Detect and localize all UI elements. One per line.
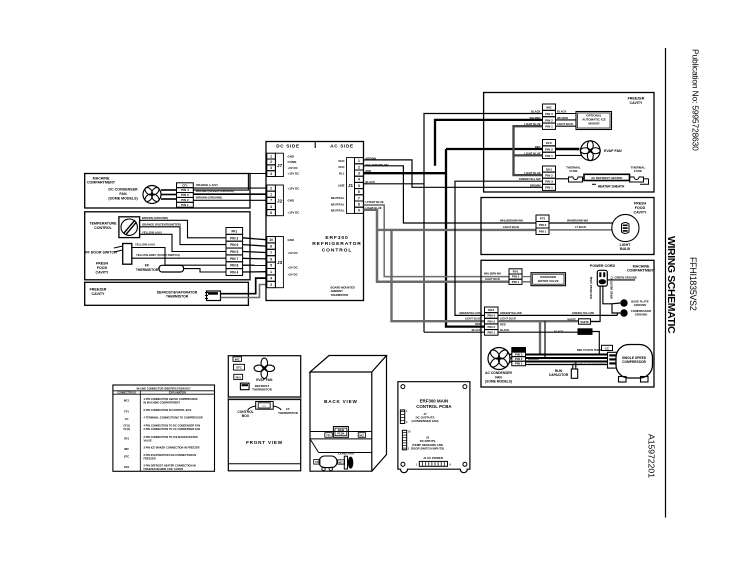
- svg-text:LIGHT BLUE: LIGHT BLUE: [503, 225, 519, 229]
- svg-text:2: 2: [270, 160, 272, 164]
- svg-text:1: 1: [270, 193, 272, 197]
- svg-text:BOX: BOX: [242, 414, 250, 418]
- svg-text:EXPLANATION: EXPLANATION: [169, 392, 186, 395]
- svg-text:LIGHT BLUE: LIGHT BLUE: [465, 317, 481, 321]
- svg-text:9: 9: [450, 463, 452, 466]
- svg-text:PIN 4: PIN 4: [181, 188, 189, 192]
- svg-text:POWER CORD: POWER CORD: [590, 264, 616, 268]
- svg-text:TEMPERATURE: TEMPERATURE: [89, 222, 117, 226]
- svg-text:RL1: RL1: [339, 171, 345, 175]
- svg-text:+12V DC: +12V DC: [288, 186, 301, 190]
- svg-text:Publication No: 5995728630: Publication No: 5995728630: [691, 49, 701, 151]
- svg-text:PIN 1: PIN 1: [515, 361, 523, 365]
- svg-text:GND: GND: [288, 154, 294, 158]
- svg-text:PIN 4: PIN 4: [230, 271, 238, 275]
- svg-text:RV1: RV1: [513, 270, 519, 274]
- svg-text:A15972201: A15972201: [647, 434, 657, 478]
- svg-text:GREEN-YELLOW: GREEN-YELLOW: [572, 311, 594, 315]
- svg-text:+5V DC: +5V DC: [288, 166, 299, 170]
- svg-text:THERMISTOR: THERMISTOR: [278, 411, 299, 415]
- svg-text:NEUTRAL: NEUTRAL: [331, 202, 345, 206]
- svg-text:FREEZER: FREEZER: [144, 456, 156, 460]
- svg-text:FRESH: FRESH: [634, 202, 647, 206]
- svg-text:LIGHT BLUE: LIGHT BLUE: [557, 122, 573, 126]
- svg-text:RLD: RLD: [339, 165, 345, 169]
- svg-text:BLACK: BLACK: [500, 328, 509, 332]
- svg-text:BLACK: BLACK: [557, 110, 566, 114]
- svg-text:FF DOOR SWITCH: FF DOOR SWITCH: [85, 251, 117, 255]
- svg-text:LIGHT BLUE: LIGHT BLUE: [485, 278, 500, 281]
- svg-text:CAVITY: CAVITY: [92, 292, 106, 296]
- svg-text:YELLOW-GREY (DOOR SWITCH): YELLOW-GREY (DOOR SWITCH): [136, 253, 180, 257]
- svg-text:CF(1): CF(1): [123, 424, 130, 428]
- svg-text:J2: J2: [277, 199, 283, 204]
- svg-text:3: 3: [358, 171, 360, 175]
- svg-text:FUSE: FUSE: [634, 169, 642, 173]
- svg-text:LT/WHT BLUE: LT/WHT BLUE: [366, 200, 384, 204]
- svg-text:2 PIN DEFROST HEATER CONNECTIO: 2 PIN DEFROST HEATER CONNECTION IN: [144, 464, 196, 468]
- svg-text:FF1: FF1: [326, 434, 331, 437]
- svg-text:BROWN (GROUND): BROWN (GROUND): [196, 195, 222, 199]
- svg-text:FAN: FAN: [119, 192, 127, 196]
- svg-text:10: 10: [408, 431, 411, 434]
- svg-text:PIN 5: PIN 5: [230, 250, 238, 254]
- svg-text:PIN 2: PIN 2: [545, 118, 553, 122]
- svg-text:GROUND: GROUND: [634, 303, 646, 307]
- svg-text:BLACK: BLACK: [472, 328, 481, 332]
- svg-text:GREEN GROUND: GREEN GROUND: [615, 275, 637, 279]
- svg-text:COMPARTMENT: COMPARTMENT: [627, 269, 656, 273]
- svg-text:3 PIN ICE MAKER CONNECTION IN: 3 PIN ICE MAKER CONNECTION IN FREEZER: [144, 446, 200, 450]
- svg-text:+5V DC: +5V DC: [288, 265, 299, 269]
- svg-text:DH1: DH1: [546, 167, 552, 171]
- svg-text:5: 5: [270, 264, 272, 268]
- svg-text:YELLOW (+5V): YELLOW (+5V): [135, 243, 155, 247]
- svg-text:THERMISTOR: THERMISTOR: [331, 293, 349, 297]
- svg-text:7: 7: [270, 251, 272, 255]
- svg-text:PIN 3: PIN 3: [515, 352, 523, 356]
- svg-text:FFHI1835VS2: FFHI1835VS2: [688, 257, 698, 311]
- svg-text:BLACK: BLACK: [554, 329, 563, 333]
- svg-text:FOOD: FOOD: [97, 266, 108, 270]
- svg-text:CAPACITOR: CAPACITOR: [549, 373, 569, 377]
- svg-text:PIN 2: PIN 2: [545, 147, 553, 151]
- svg-text:PIN 1: PIN 1: [487, 331, 495, 335]
- svg-text:PIN 1: PIN 1: [545, 125, 553, 129]
- svg-text:PIN 1: PIN 1: [539, 230, 547, 234]
- svg-text:REFRIGERATOR: REFRIGERATOR: [312, 241, 361, 247]
- svg-text:1: 1: [270, 154, 272, 158]
- svg-text:ORANGE (POTENTIOMETER): ORANGE (POTENTIOMETER): [142, 223, 181, 227]
- svg-text:4: 4: [406, 421, 408, 424]
- svg-text:J3: J3: [277, 260, 283, 265]
- svg-text:PIN 3: PIN 3: [545, 112, 553, 116]
- svg-text:AC SIDE: AC SIDE: [330, 144, 354, 149]
- svg-text:6: 6: [270, 211, 272, 215]
- svg-text:PIN 2: PIN 2: [181, 198, 189, 202]
- svg-text:ERF300: ERF300: [325, 235, 348, 241]
- svg-text:PIN 2: PIN 2: [545, 173, 553, 177]
- svg-text:BACK VIEW: BACK VIEW: [324, 399, 358, 404]
- svg-text:LINE: LINE: [338, 184, 345, 188]
- svg-text:WH-RED: WH-RED: [557, 116, 568, 120]
- svg-text:+5V DC: +5V DC: [288, 272, 299, 276]
- svg-text:EVAP FAN: EVAP FAN: [604, 149, 622, 153]
- svg-text:MC1: MC1: [359, 434, 365, 437]
- svg-text:6: 6: [358, 190, 360, 194]
- svg-text:PIN 3: PIN 3: [545, 180, 553, 184]
- svg-text:PIN 3: PIN 3: [181, 193, 189, 197]
- svg-text:FREEZER: FREEZER: [90, 288, 107, 292]
- svg-text:PIN 1: PIN 1: [545, 154, 553, 158]
- svg-text:MC1: MC1: [124, 399, 130, 403]
- svg-text:MACHINE: MACHINE: [93, 176, 110, 180]
- svg-text:CONNECTOR ID: CONNECTOR ID: [117, 392, 136, 395]
- svg-text:BROWN (GROUND): BROWN (GROUND): [142, 216, 168, 220]
- svg-text:PIN 4: PIN 4: [487, 314, 495, 318]
- svg-text:1: 1: [270, 270, 272, 274]
- svg-text:AMBIENT: AMBIENT: [331, 289, 344, 293]
- svg-text:DOOR SWITCH INPUTS): DOOR SWITCH INPUTS): [411, 447, 444, 451]
- svg-text:4: 4: [270, 277, 272, 281]
- svg-text:4 PIN CONNECTION ABOVE COMPRES: 4 PIN CONNECTION ABOVE COMPRESSOR: [144, 397, 198, 401]
- svg-text:WH(-)BRN-WH: WH(-)BRN-WH: [484, 273, 501, 276]
- svg-text:RLD: RLD: [339, 159, 345, 163]
- svg-text:DC CONDENSER: DC CONDENSER: [108, 187, 138, 191]
- svg-text:CC: CC: [125, 417, 129, 421]
- svg-text:VALVE: VALVE: [144, 438, 153, 442]
- svg-text:FF1: FF1: [231, 229, 237, 233]
- svg-text:FF1: FF1: [124, 410, 129, 414]
- svg-text:PIN 7: PIN 7: [230, 257, 238, 261]
- svg-text:9: 9: [358, 209, 360, 213]
- svg-text:CONN.: CONN.: [288, 160, 298, 164]
- svg-text:COMPRESSOR: COMPRESSOR: [622, 360, 646, 364]
- svg-text:CONTROL: CONTROL: [322, 247, 352, 253]
- svg-text:MC1: MC1: [339, 462, 345, 464]
- svg-text:RED: RED: [535, 145, 541, 149]
- svg-text:ORANGE (+12V): ORANGE (+12V): [196, 183, 218, 187]
- svg-text:WH-RED: WH-RED: [529, 116, 540, 120]
- svg-text:PIN 1: PIN 1: [181, 203, 189, 207]
- svg-text:CC: CC: [605, 346, 609, 350]
- svg-text:WATER VALVE: WATER VALVE: [538, 279, 559, 283]
- svg-text:THERMISTOR: THERMISTOR: [252, 388, 273, 392]
- svg-text:WH(-)GRN-WH TO START TERM: WH(-)GRN-WH TO START TERM: [572, 363, 605, 366]
- svg-text:DH1: DH1: [236, 375, 242, 379]
- svg-text:FREEZER BEHIND COIL COVER: FREEZER BEHIND COIL COVER: [144, 467, 184, 471]
- svg-text:J7: J7: [277, 163, 283, 168]
- svg-text:CF(2): CF(2): [123, 427, 130, 431]
- svg-text:8: 8: [358, 202, 360, 206]
- svg-text:PIN 1: PIN 1: [512, 280, 520, 284]
- svg-text:RED TO RUN TERM: RED TO RUN TERM: [577, 348, 601, 352]
- svg-text:PIN 2: PIN 2: [512, 275, 520, 279]
- svg-text:::::: ::::: [262, 404, 266, 408]
- svg-text:2 PIN CONNECTION TO AC CONDENS: 2 PIN CONNECTION TO AC CONDENSER FAN: [144, 427, 201, 431]
- svg-text:7: 7: [358, 196, 360, 200]
- svg-text:COMPARTMENT: COMPARTMENT: [87, 181, 116, 185]
- svg-text:THERMISTOR: THERMISTOR: [166, 295, 189, 299]
- svg-text:PIN 3: PIN 3: [487, 319, 495, 323]
- svg-text:1: 1: [408, 448, 410, 451]
- svg-text:(SOME MODELS): (SOME MODELS): [108, 197, 138, 201]
- svg-text:7: 7: [270, 199, 272, 203]
- svg-text:CAVITY: CAVITY: [634, 210, 648, 214]
- svg-text:2 PIN EVAPORATOR FAN CONNECTIO: 2 PIN EVAPORATOR FAN CONNECTION IN: [144, 453, 197, 457]
- svg-text:GND: GND: [288, 199, 294, 203]
- svg-text:+12V DC: +12V DC: [288, 172, 301, 176]
- svg-text:PIN 8: PIN 8: [230, 264, 238, 268]
- svg-text:PIN 1: PIN 1: [545, 186, 553, 190]
- svg-text:6 PIN CONNECTION IN CONTROL BO: 6 PIN CONNECTION IN CONTROL BOX: [144, 408, 192, 412]
- svg-text:4: 4: [270, 172, 272, 176]
- svg-text:2 PIN CONNECTION TO ICE MAKER: 2 PIN CONNECTION TO ICE MAKER WATER: [144, 435, 198, 439]
- svg-text:BRN: BRN: [528, 354, 534, 357]
- svg-text:J1: J1: [348, 183, 354, 188]
- svg-text:2: 2: [270, 186, 272, 190]
- svg-text:EFC: EFC: [546, 141, 553, 145]
- svg-text:5: 5: [358, 184, 360, 188]
- svg-text:PCBA: PCBA: [337, 432, 344, 435]
- svg-text:FOOD: FOOD: [635, 206, 646, 210]
- svg-text:WH/BROWN-WH: WH/BROWN-WH: [567, 218, 588, 222]
- svg-text:FUSE: FUSE: [569, 169, 577, 173]
- svg-text:4 PIN CONNECTION TO DC CONDENS: 4 PIN CONNECTION TO DC CONDENSER FAN: [144, 424, 201, 428]
- svg-text:IN-LINE CONNECTOR IDENTIFICATI: IN-LINE CONNECTOR IDENTIFICATION KEY: [137, 386, 191, 390]
- svg-text:MAKER: MAKER: [589, 121, 601, 125]
- svg-text:AC DEFROST HEATER: AC DEFROST HEATER: [591, 176, 623, 180]
- svg-text:GROUND: GROUND: [635, 312, 647, 316]
- svg-text:2: 2: [358, 165, 360, 169]
- svg-text:4: 4: [358, 178, 360, 182]
- svg-text:PIN 2: PIN 2: [515, 357, 523, 361]
- svg-text:3: 3: [270, 205, 272, 209]
- svg-text:BROWN: BROWN: [530, 183, 541, 187]
- svg-text:3: 3: [270, 166, 272, 170]
- svg-text:RUN WIRES (LINE): RUN WIRES (LINE): [590, 276, 593, 299]
- svg-text:LIGHT: LIGHT: [620, 243, 632, 247]
- svg-text:CAVITY: CAVITY: [630, 101, 644, 105]
- svg-text:IN MACHINE COMPARTMENT: IN MACHINE COMPARTMENT: [144, 400, 181, 404]
- svg-text:WHITE: WHITE: [580, 320, 589, 324]
- svg-text:GROUND: GROUND: [579, 330, 591, 334]
- svg-text:PIN 3: PIN 3: [230, 236, 238, 240]
- svg-text:BULB: BULB: [620, 247, 630, 251]
- svg-text:WH(-)BROWN-WH: WH(-)BROWN-WH: [500, 218, 523, 222]
- svg-text:1: 1: [416, 463, 418, 466]
- svg-text:1: 1: [406, 410, 408, 413]
- svg-text:IMC: IMC: [124, 447, 129, 451]
- svg-text:WIRING SCHEMATIC: WIRING SCHEMATIC: [665, 236, 677, 334]
- svg-text:MACHINE: MACHINE: [633, 264, 650, 268]
- svg-text:LT BLUE: LT BLUE: [575, 225, 586, 229]
- svg-text:4 TERMINAL CONNECTIONS TO COMP: 4 TERMINAL CONNECTIONS TO COMPRESSOR: [144, 416, 203, 420]
- svg-text:RV1: RV1: [124, 437, 130, 441]
- svg-text:CONTROL PCBA: CONTROL PCBA: [416, 404, 452, 409]
- svg-text:HEATER SHEATH: HEATER SHEATH: [598, 185, 625, 189]
- svg-text:FF2: FF2: [540, 217, 546, 221]
- svg-text:CC: CC: [315, 461, 319, 464]
- svg-text:RED: RED: [500, 322, 506, 326]
- svg-text:EFC: EFC: [124, 455, 129, 459]
- svg-text:GREEN/YELLOW: GREEN/YELLOW: [519, 177, 541, 181]
- svg-text:PIN 2: PIN 2: [487, 325, 495, 329]
- svg-text:CF1: CF1: [182, 183, 188, 187]
- svg-text:+5V DC: +5V DC: [288, 251, 299, 255]
- svg-text:BOARD MOUNTED: BOARD MOUNTED: [331, 286, 355, 290]
- svg-text:BLACK: BLACK: [531, 110, 540, 114]
- svg-text:THERMISTOR: THERMISTOR: [136, 268, 159, 272]
- svg-text:+12V DC: +12V DC: [288, 211, 301, 215]
- svg-text:COND FAN: COND FAN: [338, 452, 354, 456]
- svg-text:CAVITY: CAVITY: [96, 270, 110, 274]
- svg-text:NEUTRAL: NEUTRAL: [331, 196, 345, 200]
- svg-text:9: 9: [270, 257, 272, 261]
- svg-text:2: 2: [270, 283, 272, 287]
- svg-text:GREEN/YELLOW: GREEN/YELLOW: [459, 311, 481, 315]
- svg-text:(SOME MODELS): (SOME MODELS): [485, 380, 512, 384]
- svg-text:DH1: DH1: [124, 465, 130, 469]
- svg-text:CONTROL: CONTROL: [94, 226, 113, 230]
- svg-text:FRESH: FRESH: [96, 262, 109, 266]
- svg-text:PIN 6: PIN 6: [230, 243, 238, 247]
- svg-text:6: 6: [270, 245, 272, 249]
- svg-text:(CONDENSER FAN): (CONDENSER FAN): [412, 419, 439, 423]
- svg-text:MC1: MC1: [488, 308, 495, 312]
- svg-text:EVAP FAN: EVAP FAN: [256, 378, 273, 382]
- svg-text:IMC: IMC: [235, 357, 240, 361]
- svg-text:FREEZER: FREEZER: [628, 97, 645, 101]
- svg-text:EFC: EFC: [236, 366, 241, 370]
- svg-text:J1 AC POWER: J1 AC POWER: [423, 456, 444, 460]
- svg-text:10: 10: [269, 238, 273, 242]
- svg-text:IMC: IMC: [546, 106, 552, 110]
- svg-text:1: 1: [358, 159, 360, 163]
- svg-text:ERF300 MAIN: ERF300 MAIN: [420, 399, 449, 404]
- svg-text:FRONT VIEW: FRONT VIEW: [246, 440, 283, 445]
- svg-text:DC SIDE: DC SIDE: [276, 144, 300, 149]
- svg-text:GND: GND: [288, 238, 294, 242]
- svg-text:WHITE: WHITE: [567, 318, 576, 322]
- svg-text:RED: RED: [475, 322, 481, 326]
- svg-text:PIN 2: PIN 2: [539, 223, 547, 227]
- svg-text:NEUTRAL: NEUTRAL: [331, 209, 345, 213]
- svg-text:GRN-WH: GRN-WH: [528, 358, 539, 361]
- svg-text:GREEN/YELLOW: GREEN/YELLOW: [500, 311, 522, 315]
